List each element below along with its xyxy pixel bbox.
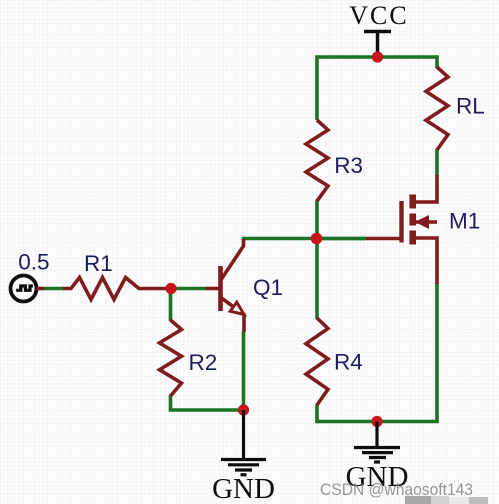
wire top rail [317, 57, 437, 120]
wire RL drain gap [435, 149, 439, 176]
svg-text:RL: RL [456, 94, 485, 119]
wire bottom left rail [171, 395, 244, 410]
wire R2 top lead [169, 287, 173, 322]
svg-text:R4: R4 [334, 350, 363, 375]
svg-text:0.5: 0.5 [18, 250, 49, 275]
resistor R4 [306, 318, 328, 405]
power symbol VCC [364, 32, 391, 56]
svg-text:VCC: VCC [349, 1, 408, 30]
artifact gray blocks [405, 496, 488, 504]
junction dot VCC [372, 51, 383, 62]
junction dot right ground node [371, 416, 382, 427]
svg-text:CSDN @whaosoft143: CSDN @whaosoft143 [320, 480, 473, 499]
junction dot left ground node [238, 404, 249, 415]
ground left [221, 410, 266, 475]
transistor Q1 [206, 239, 244, 332]
resistor R3 [306, 120, 328, 201]
wire Q1 collector riser [242, 237, 246, 242]
resistor R2 [160, 320, 182, 396]
svg-text:R2: R2 [189, 350, 218, 375]
wire source input [43, 287, 64, 291]
resistor R1 [63, 278, 167, 300]
svg-text:R1: R1 [84, 251, 113, 276]
wire base stub [169, 287, 206, 291]
resistor RL [426, 67, 448, 150]
wire bottom right rail [317, 283, 437, 422]
wire Q1 emitter drop [242, 331, 246, 412]
wire gate stub [315, 237, 366, 241]
ground right [354, 422, 400, 463]
voltage source V1 [11, 276, 37, 302]
junction dot gate node [311, 233, 323, 245]
wire R4 bottom lead [315, 404, 319, 423]
wire mid rail [244, 237, 366, 241]
svg-text:R3: R3 [334, 153, 363, 178]
wire source output stub [37, 287, 45, 291]
mosfet M1 [366, 175, 437, 284]
wire R3-R4 column [315, 200, 319, 319]
svg-text:GND: GND [212, 473, 275, 504]
svg-text:Q1: Q1 [253, 275, 283, 300]
svg-text:M1: M1 [449, 209, 480, 234]
junction dot base node [165, 283, 176, 294]
